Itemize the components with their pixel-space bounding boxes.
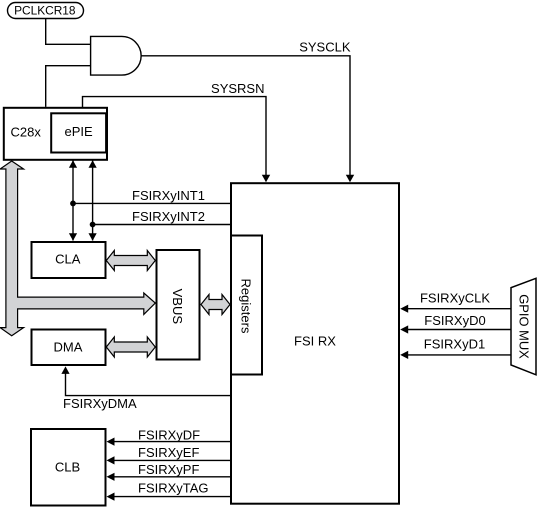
GPIO MUX <box>511 278 536 375</box>
block Registers <box>231 236 262 375</box>
block FSI RX <box>231 183 399 504</box>
svg-text:FSI RX: FSI RX <box>294 334 336 349</box>
arrowhead up into C28x <box>69 160 77 168</box>
svg-text:FSIRXyTAG: FSIRXyTAG <box>138 481 209 496</box>
wire FSIRXyD0 <box>406 329 512 331</box>
gray bus arrow VBUS to Registers <box>201 295 230 315</box>
block C28x <box>4 108 107 160</box>
svg-text:SYSRSN: SYSRSN <box>211 81 264 96</box>
svg-text:FSIRXyDMA: FSIRXyDMA <box>63 396 137 411</box>
wire AND gate bottom input from C28x <box>46 66 91 107</box>
arrowhead FSIRXyD0 into FSI RX <box>400 325 408 333</box>
clock register pill PCLKCR18 <box>8 3 84 19</box>
block VBUS <box>157 250 200 360</box>
svg-text:FSIRXyEF: FSIRXyEF <box>138 445 199 460</box>
block CLB <box>31 429 106 506</box>
wire FSIRXyTAG <box>112 496 231 498</box>
block ePIE <box>51 113 106 152</box>
arrowhead FSIRXyEF into CLB <box>107 456 115 464</box>
junction dot INT1 <box>70 201 76 207</box>
wire SYSRSN <box>83 97 267 175</box>
wire PCLKCR18 to AND gate top input <box>46 19 91 45</box>
arrowhead FSIRXyDF into CLB <box>107 438 115 446</box>
wire FSIRXyDF <box>112 441 231 443</box>
arrowhead FSIRXyD1 into FSI RX <box>400 351 408 359</box>
svg-text:FSIRXyD1: FSIRXyD1 <box>424 337 485 352</box>
svg-text:FSIRXyINT2: FSIRXyINT2 <box>132 209 205 224</box>
svg-text:CLA: CLA <box>55 251 81 266</box>
junction dot INT2 <box>90 222 96 228</box>
block CLA <box>32 242 106 278</box>
arrowhead SYSRSN into FSI RX <box>262 175 270 183</box>
gray bus arrow CLA to VBUS <box>106 251 155 271</box>
wire FSIRXyINT1 <box>73 202 231 204</box>
arrowhead up into C28x <box>89 160 97 168</box>
svg-text:GPIO MUX: GPIO MUX <box>517 294 532 359</box>
svg-text:SYSCLK: SYSCLK <box>299 39 351 54</box>
wire FSIRXyDMA <box>66 373 232 396</box>
svg-text:FSIRXyDF: FSIRXyDF <box>138 428 200 443</box>
svg-text:FSIRXyINT1: FSIRXyINT1 <box>132 188 205 203</box>
svg-text:C28x: C28x <box>11 125 42 140</box>
svg-text:ePIE: ePIE <box>65 124 94 139</box>
svg-text:FSIRXyCLK: FSIRXyCLK <box>420 291 490 306</box>
arrowhead FSIRXyPF into CLB <box>107 473 115 481</box>
svg-text:FSIRXyD0: FSIRXyD0 <box>424 313 485 328</box>
wire FSIRXyCLK <box>406 308 512 310</box>
block DMA <box>32 330 106 366</box>
svg-text:CLB: CLB <box>55 460 80 475</box>
wire FSIRXyPF <box>112 476 231 478</box>
arrowhead down into CLA <box>89 233 97 241</box>
arrowhead SYSCLK into FSI RX <box>346 175 354 183</box>
wire interrupt line 2 (vertical) <box>92 161 94 241</box>
svg-text:Registers: Registers <box>238 279 253 334</box>
arrowhead FSIRXyTAG into CLB <box>107 493 115 501</box>
wire interrupt line 1 (vertical) <box>72 161 74 241</box>
AND gate U1 <box>91 36 142 75</box>
arrowhead down into CLA <box>69 233 77 241</box>
wire FSIRXyD1 <box>406 354 512 356</box>
svg-text:PCLKCR18: PCLKCR18 <box>14 4 76 18</box>
arrowhead FSIRXyCLK into FSI RX <box>400 305 408 313</box>
wire FSIRXyINT2 <box>93 224 231 226</box>
gray bus arrow DMA to VBUS <box>106 337 155 357</box>
arrowhead FSIRXyDMA into DMA <box>61 366 69 374</box>
svg-text:DMA: DMA <box>54 340 83 355</box>
svg-text:FSIRXyPF: FSIRXyPF <box>138 462 199 477</box>
svg-text:VBUS: VBUS <box>170 289 185 325</box>
wire FSIRXyEF <box>112 459 231 461</box>
big gray CPU bus arrow (vertical double-head with branch to VBUS) <box>0 161 155 336</box>
wire SYSCLK <box>141 56 350 175</box>
